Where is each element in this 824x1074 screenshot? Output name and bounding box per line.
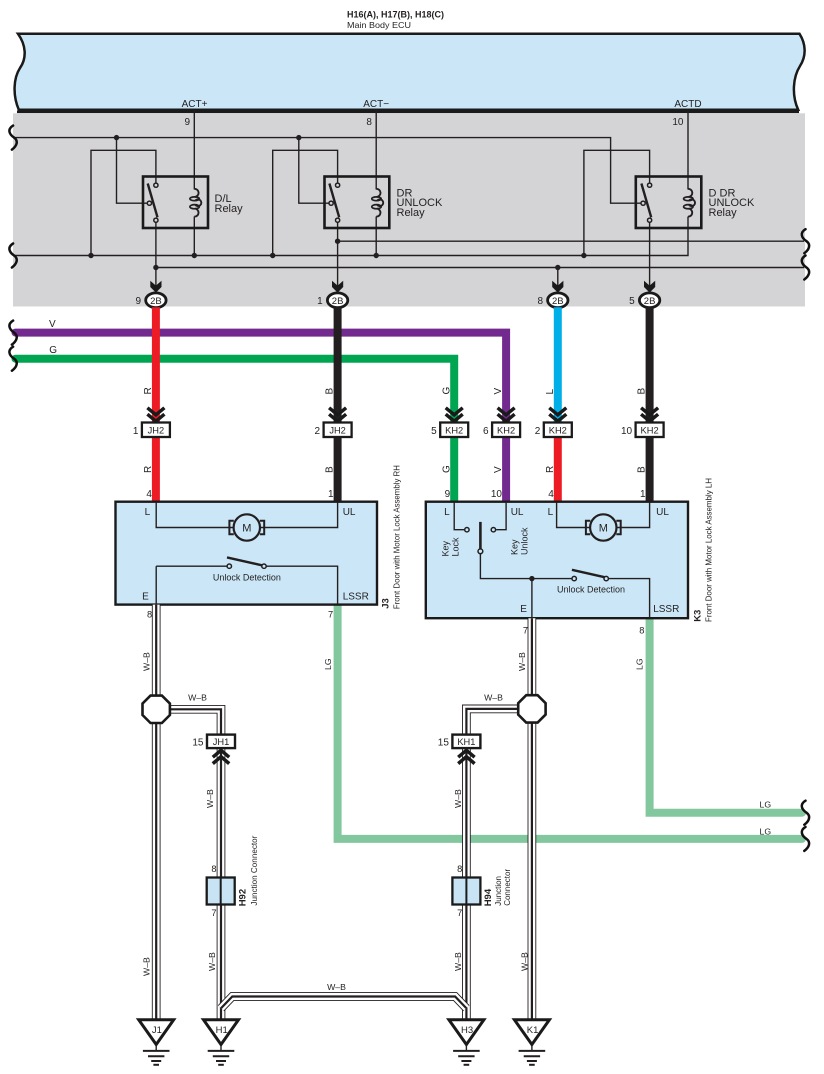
svg-text:LG: LG — [635, 658, 645, 670]
svg-text:W–B: W–B — [453, 952, 463, 971]
svg-text:M: M — [599, 522, 608, 534]
harness break symbol LG lower right — [802, 827, 809, 851]
wire W-B K3 E pin to ground K1 — [531, 618, 533, 1020]
svg-text:1: 1 — [317, 296, 323, 307]
ground K1 — [514, 1020, 549, 1065]
svg-text:V: V — [493, 466, 504, 473]
svg-text:LSSR: LSSR — [343, 591, 369, 602]
svg-text:1: 1 — [640, 489, 646, 500]
svg-text:Front Door with Motor Lock Ass: Front Door with Motor Lock Assembly LH — [704, 478, 714, 622]
svg-text:K1: K1 — [527, 1025, 539, 1036]
connector KH2 pin 5 — [431, 387, 468, 500]
connector KH1 pin 15 — [438, 735, 481, 764]
svg-text:JH2: JH2 — [148, 426, 165, 436]
svg-text:G: G — [49, 345, 57, 356]
wire J3 pin L to motor — [156, 502, 233, 528]
svg-text:8: 8 — [639, 625, 644, 635]
svg-text:W–B: W–B — [453, 789, 463, 808]
junction node bus B / DR UNLOCK relay feed — [270, 253, 275, 258]
svg-text:8: 8 — [537, 296, 543, 307]
svg-text:W–B: W–B — [142, 652, 152, 671]
junction octagon on J3 E wire — [143, 696, 170, 723]
svg-text:5: 5 — [431, 426, 437, 437]
svg-text:ACT−: ACT− — [363, 99, 389, 110]
svg-text:7: 7 — [328, 610, 333, 620]
svg-text:LG: LG — [323, 658, 333, 670]
svg-text:9: 9 — [135, 296, 141, 307]
wire B (black) 2B-5 to KH2-10 to K3 pin 1 — [646, 307, 654, 502]
harness break symbol V wire — [9, 321, 16, 345]
svg-text:10: 10 — [672, 117, 684, 128]
svg-text:KH2: KH2 — [445, 426, 463, 436]
wire J3 unlock detection switch right to LSSR — [266, 566, 337, 604]
svg-text:6: 6 — [483, 426, 489, 437]
svg-text:KH2: KH2 — [497, 426, 515, 436]
svg-text:M: M — [242, 522, 251, 534]
svg-text:1: 1 — [133, 426, 139, 437]
svg-text:H3: H3 — [461, 1025, 473, 1036]
wire DR UNLOCK relay output to 2B pin 1 — [337, 222, 339, 293]
svg-text:Junction Connector: Junction Connector — [250, 835, 259, 905]
wire D/L relay coil to bus B — [193, 217, 195, 256]
wire R (red) 2B-9 to JH2-1 to J3 pin 4 — [152, 307, 160, 502]
svg-text:KH2: KH2 — [641, 426, 659, 436]
svg-text:V: V — [493, 388, 504, 395]
harness break symbol bus C right — [802, 229, 809, 253]
ground H3 — [449, 1020, 484, 1065]
wire D/L relay mid contact from bus A — [117, 138, 148, 204]
svg-text:Relay: Relay — [397, 207, 426, 219]
svg-text:B: B — [637, 466, 648, 473]
svg-text:7: 7 — [211, 908, 216, 918]
svg-text:W–B: W–B — [207, 952, 217, 971]
motor M of K3 — [590, 514, 616, 540]
svg-text:R: R — [545, 466, 556, 473]
wire K3 E pin — [531, 579, 533, 619]
svg-text:KH1: KH1 — [457, 737, 475, 747]
svg-text:UL: UL — [343, 507, 356, 518]
wire R (red) KH2-2 to K3 pin 4 — [554, 430, 562, 502]
svg-text:8: 8 — [211, 864, 216, 874]
svg-text:JH1: JH1 — [213, 737, 230, 747]
svg-text:2B: 2B — [552, 296, 564, 307]
ground J1 — [139, 1020, 174, 1065]
svg-text:W–B: W–B — [142, 957, 152, 976]
svg-text:H16(A), H17(B), H18(C): H16(A), H17(B), H18(C) — [347, 9, 444, 19]
wire J3 unlock detection switch left — [156, 565, 227, 567]
svg-text:Front Door with Motor Lock Ass: Front Door with Motor Lock Assembly RH — [392, 465, 402, 609]
svg-text:10: 10 — [491, 489, 503, 500]
svg-text:H94: H94 — [483, 888, 494, 906]
svg-text:W–B: W–B — [188, 693, 207, 703]
wire K3 unlock detection right to LSSR — [609, 579, 650, 619]
svg-text:4: 4 — [548, 489, 554, 500]
junction node bus C / DR UNLOCK output — [335, 239, 340, 244]
wire W-B octagon branch to JH1 — [160, 709, 221, 734]
relay DR UNLOCK Relay — [325, 177, 444, 229]
svg-text:15: 15 — [192, 738, 204, 749]
svg-text:E: E — [520, 604, 527, 615]
junction node bus A / DR UNLOCK relay — [296, 135, 301, 140]
wire V (violet) from ECU harness to KH2-6 — [16, 333, 507, 502]
svg-text:L: L — [444, 507, 450, 518]
wire W-B J3 E pin to ground J1 — [155, 605, 157, 1020]
junction node bus B / D/L relay feed — [88, 253, 93, 258]
wire DR UNLOCK relay coil to bus B — [375, 217, 377, 256]
svg-text:4: 4 — [146, 489, 152, 500]
svg-text:8: 8 — [457, 864, 462, 874]
svg-text:10: 10 — [621, 426, 633, 437]
svg-text:ACTD: ACTD — [674, 99, 701, 110]
svg-text:Unlock Detection: Unlock Detection — [213, 572, 281, 583]
wire bus D (lock output) — [156, 267, 804, 269]
wire bus D branch to 2B pin 8 — [557, 268, 559, 294]
svg-text:2: 2 — [535, 426, 541, 437]
svg-text:L: L — [145, 507, 151, 518]
switch unlock detection J3 — [227, 557, 262, 565]
wire W-B KH1 through H94 to ground H3 — [465, 748, 467, 1020]
wire K3 pin UL (motor) — [617, 502, 650, 528]
connector 2B pin 1 (arrow + oval) — [317, 281, 348, 308]
svg-text:V: V — [49, 319, 56, 330]
wire W-B octagon branch to KH1 — [466, 709, 528, 735]
svg-text:KH2: KH2 — [549, 426, 567, 436]
svg-text:Relay: Relay — [215, 203, 244, 215]
svg-text:15: 15 — [438, 738, 450, 749]
svg-text:LG: LG — [760, 800, 772, 810]
wire K3 pin L (motor) — [557, 502, 590, 528]
svg-text:9: 9 — [184, 117, 190, 128]
svg-text:5: 5 — [629, 296, 635, 307]
wire D DR UNLOCK relay output to 2B pin 5 — [649, 222, 651, 293]
wire LG from J3 LSSR to harness right — [338, 605, 802, 839]
connector JH2 pin 1 — [133, 387, 170, 500]
svg-text:G: G — [441, 465, 452, 473]
svg-text:7: 7 — [523, 625, 528, 635]
svg-text:ACT+: ACT+ — [182, 99, 208, 110]
svg-text:B: B — [325, 388, 336, 395]
svg-text:UL: UL — [511, 507, 524, 518]
wire DR UNLOCK relay mid contact from bus A — [299, 138, 329, 204]
connector 2B pin 9 (arrow + oval) — [135, 281, 166, 308]
svg-text:J1: J1 — [152, 1025, 162, 1036]
junction connector H94 — [452, 864, 512, 918]
wire ACT+ to D/L relay coil — [193, 110, 195, 190]
Main Body ECU block (torn-edge band) — [15, 34, 805, 110]
wire K3 key switch common to E node — [480, 554, 571, 579]
motor M of J3 — [234, 514, 260, 540]
svg-text:K3: K3 — [693, 610, 704, 622]
svg-text:W–B: W–B — [517, 652, 527, 671]
connector KH2 pin 2 — [535, 389, 572, 500]
svg-text:2B: 2B — [644, 296, 656, 307]
wire L (light blue) 2B-8 to KH2-2 — [554, 307, 562, 430]
wire bus B (relay common) — [13, 217, 688, 256]
connector JH1 pin 15 — [192, 735, 235, 764]
harness break symbol G wire — [9, 347, 16, 371]
svg-text:8: 8 — [366, 117, 372, 128]
wire G (green) from ECU harness to KH2-5 — [16, 359, 455, 502]
svg-text:R: R — [143, 387, 154, 394]
svg-text:JH2: JH2 — [329, 426, 346, 436]
svg-text:E: E — [142, 592, 149, 603]
wire bus C (unlock output) — [338, 240, 804, 242]
svg-text:Main Body ECU: Main Body ECU — [347, 20, 411, 30]
svg-text:LG: LG — [760, 827, 772, 837]
wire J3 pin UL to motor — [260, 502, 337, 528]
connector JH2 pin 2 — [315, 388, 352, 500]
svg-text:8: 8 — [147, 610, 152, 620]
junction node bus B / DR UNLOCK coil — [374, 253, 379, 258]
wire B (black) 2B-1 to JH2-2 to J3 pin 1 — [334, 307, 342, 502]
wire ACTD to D DR UNLOCK relay coil — [687, 110, 689, 190]
svg-text:L: L — [548, 507, 554, 518]
Main Body ECU bottom border — [17, 111, 799, 114]
svg-text:R: R — [143, 466, 154, 473]
svg-text:B: B — [325, 466, 336, 473]
svg-text:7: 7 — [457, 908, 462, 918]
svg-text:W–B: W–B — [484, 693, 503, 703]
wire W-B ground link H1 to H3 — [221, 997, 466, 1009]
svg-text:2B: 2B — [332, 296, 344, 307]
svg-text:W–B: W–B — [327, 982, 346, 992]
connector KH2 pin 6 — [483, 388, 520, 500]
harness break symbol LG upper right — [802, 801, 809, 825]
ground H1 — [204, 1020, 239, 1065]
wire J3 E pin — [155, 566, 157, 604]
wire LG from K3 LSSR to harness right — [650, 618, 802, 813]
svg-text:Unlock Detection: Unlock Detection — [557, 584, 625, 595]
junction node bus A / D/L relay — [114, 135, 119, 140]
relay D/L Relay — [143, 177, 243, 229]
component K3 Front Door with Motor Lock Assembly LH — [426, 478, 714, 635]
junction octagon on K3 E wire — [518, 695, 545, 722]
junction node bus D / branch to 2B-8 — [555, 265, 560, 270]
wire DR UNLOCK relay top contact feed from bus B — [273, 150, 338, 255]
wire D/L relay top contact feed from bus B — [91, 150, 156, 255]
svg-text:2B: 2B — [150, 296, 162, 307]
svg-text:UL: UL — [656, 507, 669, 518]
harness break symbol bus A — [9, 126, 16, 150]
connector 2B pin 8 (arrow + oval) — [537, 281, 568, 308]
switch unlock detection K3 — [572, 570, 607, 578]
svg-text:Relay: Relay — [709, 207, 738, 219]
svg-text:LSSR: LSSR — [653, 604, 679, 615]
svg-text:9: 9 — [445, 489, 451, 500]
svg-text:G: G — [441, 387, 452, 395]
svg-text:L: L — [545, 389, 556, 395]
junction node bus B / D DR UNLOCK relay feed — [581, 253, 586, 258]
connector KH2 pin 10 — [621, 388, 664, 500]
junction node K3 E — [529, 576, 534, 581]
junction node bus D / D/L output — [153, 265, 158, 270]
wire K3 key unlock contact — [496, 502, 506, 530]
svg-text:W–B: W–B — [205, 789, 215, 808]
component J3 Front Door with Motor Lock Assembly RH — [116, 465, 402, 620]
wire ACT− to DR UNLOCK relay coil — [375, 110, 377, 190]
relay block shaded band — [13, 113, 805, 306]
svg-text:2: 2 — [315, 426, 321, 437]
junction node bus B / D/L coil — [192, 253, 197, 258]
wire W-B JH1 through H92 to ground H1 — [220, 748, 222, 1020]
harness break symbol bus D right — [802, 256, 809, 280]
harness break symbol bus B — [9, 244, 16, 268]
wire K3 key lock contact — [454, 502, 464, 530]
svg-text:B: B — [637, 388, 648, 395]
wire D DR UNLOCK relay top contact feed from bus B — [584, 150, 650, 255]
switch key lock/unlock blade K3 — [479, 522, 482, 549]
svg-text:J3: J3 — [380, 598, 391, 609]
wire D/L relay output to 2B pin 9 — [155, 222, 157, 293]
svg-text:1: 1 — [328, 489, 334, 500]
connector 2B pin 5 (arrow + oval) — [629, 281, 660, 308]
svg-text:H92: H92 — [238, 889, 249, 906]
junction connector H92 — [207, 835, 259, 918]
relay D DR UNLOCK Relay — [636, 177, 755, 229]
svg-text:H1: H1 — [216, 1025, 228, 1036]
wire bus A (relay control feed) — [13, 138, 641, 204]
svg-text:W–B: W–B — [520, 952, 530, 971]
